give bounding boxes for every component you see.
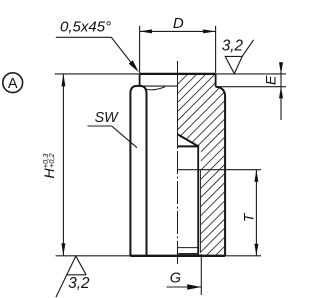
svg-text:3,2: 3,2: [222, 37, 244, 54]
svg-text:SW: SW: [95, 110, 120, 126]
svg-text:0,5x45°: 0,5x45°: [60, 19, 111, 36]
svg-text:T: T: [240, 212, 256, 222]
svg-text:H+0,3+0,2: H+0,3+0,2: [41, 153, 57, 179]
svg-text:A: A: [8, 76, 18, 92]
svg-text:D: D: [173, 15, 184, 32]
svg-text:3,2: 3,2: [68, 275, 90, 292]
svg-text:G: G: [170, 271, 181, 287]
svg-text:E: E: [263, 75, 279, 85]
